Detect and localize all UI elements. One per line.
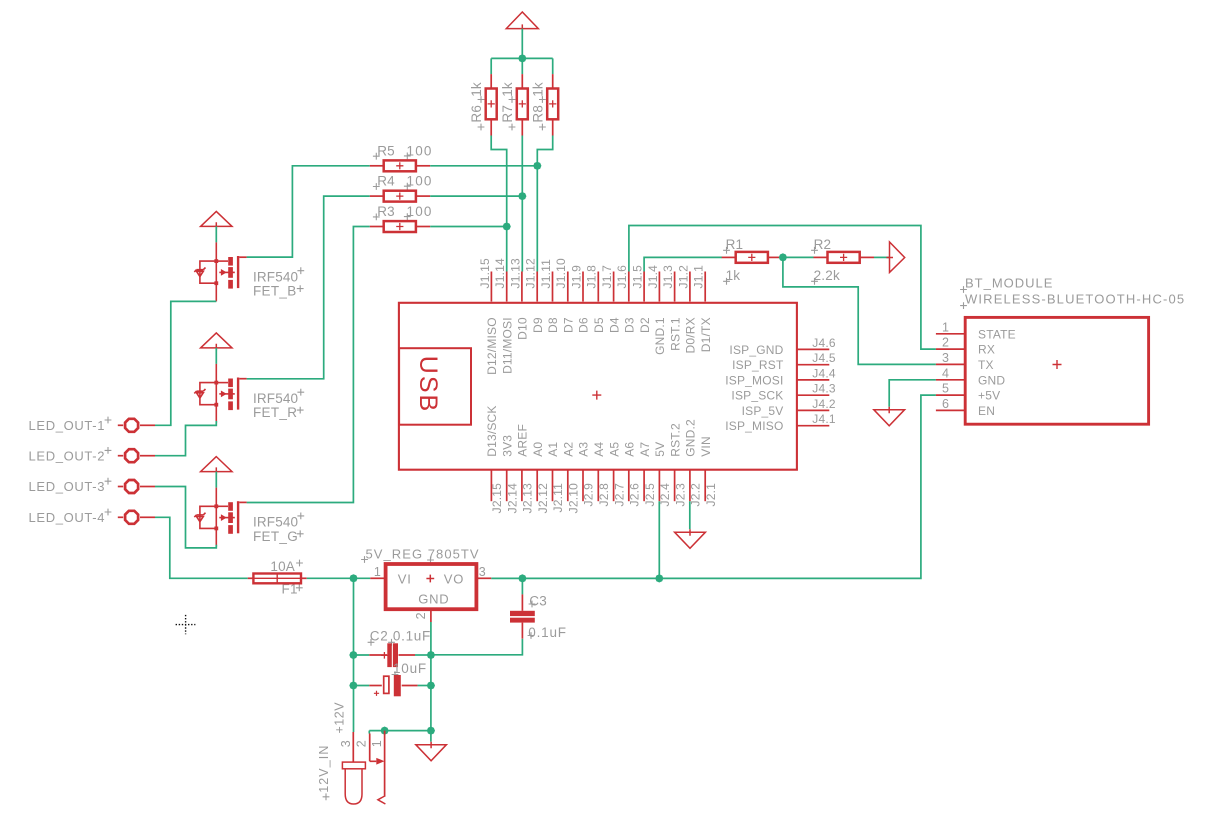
U1 top pin J1.6 stub bbox=[628, 272, 630, 302]
BT_MODULE pin 5 stub bbox=[936, 394, 965, 396]
svg-text:J2.11: J2.11 bbox=[551, 483, 565, 513]
U1 top pin J1.5 stub bbox=[643, 272, 645, 302]
svg-text:D5: D5 bbox=[592, 317, 606, 333]
wire supply to FET_R drain bbox=[215, 348, 217, 364]
U1 bottom pin J2.2 stub bbox=[689, 470, 691, 501]
svg-text:2: 2 bbox=[355, 739, 369, 747]
svg-text:3: 3 bbox=[942, 351, 949, 365]
transistor FET_B (IRF540 N-MOSFET) bbox=[194, 242, 235, 301]
12V_IN pin 3 line bbox=[352, 732, 354, 762]
svg-text:J4.3: J4.3 bbox=[812, 382, 836, 396]
connector pad LED_OUT-3 bbox=[125, 480, 138, 493]
wire R1-R2 junction to BT TX (net TX) bbox=[783, 257, 936, 364]
U1 top pin J1.10 stub bbox=[567, 272, 569, 302]
junction C2 right / GND column bbox=[427, 651, 435, 659]
connector pad LED_OUT-1 bbox=[125, 419, 138, 432]
resistor R6 bottom pin stub bbox=[490, 119, 492, 135]
resistor R4 body bbox=[384, 191, 416, 202]
USB box inside U1 bbox=[399, 348, 471, 425]
svg-text:R4: R4 bbox=[377, 174, 395, 189]
pad LED_OUT-2 pin stub bbox=[140, 455, 155, 457]
U1 top pin J1.12 stub bbox=[536, 272, 538, 302]
wire supply to FET_G drain bbox=[215, 472, 217, 488]
svg-text:10A: 10A bbox=[270, 559, 295, 574]
ground symbol below U1 bbox=[675, 529, 706, 548]
svg-text:2.2k: 2.2k bbox=[814, 268, 840, 283]
svg-text:3: 3 bbox=[339, 739, 353, 747]
capacitor C3 top pin bbox=[521, 594, 523, 610]
svg-text:FET_R: FET_R bbox=[253, 405, 297, 420]
resistor R7 bottom pin stub bbox=[521, 119, 523, 135]
junction bottom row at GND stub bbox=[427, 727, 435, 735]
svg-text:1: 1 bbox=[370, 739, 384, 747]
wire R3 left to FET_G gate bbox=[247, 227, 370, 503]
svg-text:AREF: AREF bbox=[516, 424, 530, 457]
resistor R5 left pin stub bbox=[370, 165, 384, 167]
wire R2 to arrow bbox=[874, 256, 890, 258]
12V_IN sleeve contact chevron bbox=[378, 796, 386, 804]
capacitor C2 plates bbox=[387, 643, 392, 667]
svg-text:J2.8: J2.8 bbox=[597, 483, 611, 507]
svg-text:J1.9: J1.9 bbox=[569, 265, 583, 289]
svg-text:USB: USB bbox=[414, 356, 442, 413]
resistor R4 origin cross bbox=[396, 193, 403, 200]
svg-text:LED_OUT-2: LED_OUT-2 bbox=[29, 448, 106, 463]
svg-text:J1.13: J1.13 bbox=[508, 258, 522, 288]
supply +12V symbol above FET_G bbox=[201, 457, 232, 475]
resistor R8 bottom pin stub bbox=[552, 119, 554, 135]
svg-text:D7: D7 bbox=[561, 317, 575, 333]
resistor R7 top pin stub bbox=[521, 74, 523, 88]
resistor R8 top pin stub bbox=[552, 74, 554, 88]
svg-text:J1.14: J1.14 bbox=[493, 258, 507, 288]
wire 10uF left bbox=[353, 685, 369, 687]
svg-text:J2.13: J2.13 bbox=[521, 483, 535, 513]
wire FET_R source to LED_OUT-2 bbox=[155, 421, 216, 456]
U1 top pin J1.9 stub bbox=[582, 272, 584, 302]
U2 pin 1 stub bbox=[370, 577, 386, 579]
U1 top pin J1.2 stub bbox=[689, 272, 691, 302]
svg-text:ISP_5V: ISP_5V bbox=[742, 404, 784, 418]
fuse F1 right pin stub bbox=[301, 577, 307, 579]
pad LED_OUT-4 pin stub bbox=[140, 516, 155, 518]
svg-text:J1.6: J1.6 bbox=[615, 265, 629, 289]
U1 bottom pin J2.7 stub bbox=[613, 470, 615, 501]
svg-text:VO: VO bbox=[444, 571, 464, 586]
U2 origin cross bbox=[426, 575, 434, 583]
resistor R3 body bbox=[384, 221, 416, 232]
module BT_MODULE body (red rectangle) bbox=[965, 317, 1148, 424]
svg-text:5: 5 bbox=[942, 382, 949, 396]
junction 5V rail at C3 bbox=[518, 574, 526, 582]
svg-text:A6: A6 bbox=[623, 442, 637, 457]
BT_MODULE pin 2 stub bbox=[936, 348, 965, 350]
fuse F1 left pin stub bbox=[248, 577, 254, 579]
U1 top pin J1.8 stub bbox=[597, 272, 599, 302]
wire GND stub to ground symbol bbox=[430, 731, 432, 742]
svg-text:IRF540: IRF540 bbox=[253, 515, 298, 530]
resistor R8 body bbox=[547, 89, 558, 120]
supply +12V symbol above FET_R bbox=[201, 333, 232, 351]
svg-text:LED_OUT-3: LED_OUT-3 bbox=[29, 479, 106, 494]
svg-text:FET_G: FET_G bbox=[253, 529, 298, 544]
svg-text:4: 4 bbox=[942, 366, 949, 380]
pad LED_OUT-3 pin stub bbox=[140, 486, 155, 488]
svg-text:VI: VI bbox=[398, 571, 412, 586]
junction R5 / R8 column bbox=[533, 162, 541, 170]
wire R5 right to junction bbox=[430, 165, 537, 167]
U1 top pin J1.14 stub bbox=[506, 272, 508, 302]
wire GND column from U2 pin2 bbox=[430, 622, 432, 731]
svg-text:J1.15: J1.15 bbox=[478, 258, 492, 288]
svg-text:RST.2: RST.2 bbox=[668, 423, 682, 457]
U1 bottom pin J2.14 stub bbox=[506, 470, 508, 501]
svg-text:D1/TX: D1/TX bbox=[699, 317, 713, 352]
svg-text:IRF540: IRF540 bbox=[253, 269, 298, 284]
wire bus to R7 top bbox=[521, 58, 523, 74]
svg-text:R1: R1 bbox=[726, 237, 744, 252]
U1 bottom pin J2.6 stub bbox=[628, 470, 630, 501]
svg-text:A7: A7 bbox=[638, 442, 652, 457]
wire J2.2 GND down bbox=[689, 501, 691, 529]
svg-text:J4.4: J4.4 bbox=[812, 366, 836, 380]
capacitor C1 left pin bbox=[369, 685, 382, 687]
BT_MODULE pin 1 stub bbox=[936, 333, 965, 335]
svg-text:J1.7: J1.7 bbox=[600, 265, 614, 289]
resistor R5 body bbox=[384, 160, 416, 171]
junction R3 / R6 column bbox=[503, 222, 511, 230]
svg-text:ISP_GND: ISP_GND bbox=[729, 343, 783, 357]
supply +12V symbol (top) bbox=[506, 12, 538, 31]
svg-text:1k: 1k bbox=[500, 82, 515, 97]
svg-text:FET_B: FET_B bbox=[253, 284, 297, 299]
svg-text:J2.7: J2.7 bbox=[612, 483, 626, 507]
resistor R1 origin cross bbox=[748, 254, 755, 261]
resistor R2 left pin stub bbox=[814, 256, 828, 258]
U1 bottom pin J2.1 stub bbox=[704, 470, 706, 501]
U1 right pin J4.1 stub bbox=[797, 425, 830, 427]
svg-text:BT_MODULE: BT_MODULE bbox=[965, 275, 1053, 290]
svg-text:EN: EN bbox=[978, 404, 995, 418]
svg-text:J2.2: J2.2 bbox=[689, 483, 703, 507]
supply arrow symbol right of R2 bbox=[886, 242, 904, 272]
resistor R5 origin cross bbox=[396, 162, 403, 169]
svg-text:D9: D9 bbox=[531, 317, 545, 333]
BT_MODULE pin 6 stub bbox=[936, 409, 965, 411]
pad LED_OUT-3 left tick bbox=[118, 486, 123, 488]
pad LED_OUT-4 left tick bbox=[118, 516, 123, 518]
svg-text:D0/RX: D0/RX bbox=[684, 317, 698, 353]
ground symbol below BT wires bbox=[874, 407, 905, 426]
capacitor C2 right pin bbox=[399, 654, 416, 656]
svg-text:ISP_MOSI: ISP_MOSI bbox=[725, 373, 783, 387]
svg-text:1k: 1k bbox=[726, 268, 741, 283]
svg-text:R7: R7 bbox=[500, 105, 515, 123]
U1 bottom pin J2.15 stub bbox=[490, 470, 492, 501]
fuse F1 body bbox=[253, 574, 301, 584]
svg-text:D4: D4 bbox=[607, 317, 621, 333]
wire 5V rail to BT +5V bbox=[491, 395, 936, 578]
svg-text:J1.5: J1.5 bbox=[631, 265, 645, 289]
svg-text:A3: A3 bbox=[577, 442, 591, 457]
BT_MODULE origin cross bbox=[1053, 360, 1062, 369]
resistor R2 body bbox=[828, 252, 860, 263]
svg-text:R2: R2 bbox=[814, 237, 832, 252]
capacitor C3 plates bbox=[510, 611, 535, 616]
svg-text:A4: A4 bbox=[592, 442, 606, 457]
svg-text:5V: 5V bbox=[653, 442, 667, 457]
svg-text:J2.10: J2.10 bbox=[566, 483, 580, 513]
junction C2 left bbox=[349, 651, 357, 659]
svg-text:3: 3 bbox=[479, 565, 487, 579]
resistor R6 body bbox=[486, 89, 497, 120]
svg-text:D2: D2 bbox=[638, 317, 652, 333]
wire LED_OUT-4 to fuse F1 bbox=[155, 517, 248, 578]
junction 10uF right / GND column bbox=[427, 681, 435, 689]
svg-text:TX: TX bbox=[978, 358, 994, 372]
wire J1.5 to R1 bbox=[644, 257, 722, 271]
wire R4 left to FET_R gate bbox=[247, 196, 370, 379]
wire R4 right to junction bbox=[430, 195, 522, 197]
junction R4 / R7 column bbox=[518, 192, 526, 200]
wire R3 right to junction bbox=[430, 226, 507, 228]
svg-text:LED_OUT-4: LED_OUT-4 bbox=[29, 510, 106, 525]
U1 bottom pin J2.12 stub bbox=[536, 470, 538, 501]
junction 10uF cap left bbox=[349, 681, 357, 689]
svg-text:12V_IN: 12V_IN bbox=[317, 745, 331, 793]
connector pad LED_OUT-4 bbox=[125, 511, 138, 524]
wire J1.6 to BT RX (net RX) bbox=[629, 226, 936, 350]
U1 bottom pin J2.4 stub bbox=[658, 470, 660, 501]
wire supply to FET_B drain bbox=[215, 226, 217, 242]
U1 origin cross bbox=[592, 391, 601, 400]
svg-text:J1.8: J1.8 bbox=[585, 265, 599, 289]
pad LED_OUT-1 left tick bbox=[118, 424, 123, 426]
svg-text:J1.4: J1.4 bbox=[646, 265, 660, 289]
svg-text:J1.10: J1.10 bbox=[554, 258, 568, 288]
junction bottom row at 12V_IN pin1 bbox=[381, 727, 389, 735]
wire R6 bottom to J1.14 column bbox=[491, 136, 507, 272]
transistor FET_R gate pin stub bbox=[239, 378, 246, 380]
U1 top pin J1.15 stub bbox=[490, 272, 492, 302]
connector pad LED_OUT-2 bbox=[125, 449, 138, 462]
U1 bottom pin J2.8 stub bbox=[597, 470, 599, 501]
capacitor C1 right pin bbox=[402, 685, 418, 687]
junction R1-R2 / BT TX bbox=[779, 253, 787, 261]
pad LED_OUT-2 left tick bbox=[118, 455, 123, 457]
svg-text:D8: D8 bbox=[546, 317, 560, 333]
op-amp U1 main MCU module body (red rectangle) bbox=[399, 303, 797, 470]
svg-text:STATE: STATE bbox=[978, 327, 1016, 341]
resistor R8 origin cross bbox=[549, 100, 556, 107]
U1 top pin J1.13 stub bbox=[521, 272, 523, 302]
wire bottom GND row bbox=[369, 730, 431, 732]
resistor R1 right pin stub bbox=[768, 256, 782, 258]
U1 bottom pin J2.10 stub bbox=[567, 470, 569, 501]
capacitor C2 origin cross bbox=[381, 652, 388, 659]
wire FET_G source to LED_OUT-3 bbox=[155, 487, 216, 548]
svg-text:1: 1 bbox=[942, 320, 949, 334]
svg-text:R5: R5 bbox=[377, 143, 395, 158]
svg-text:+5V: +5V bbox=[978, 389, 1000, 403]
resistor R3 left pin stub bbox=[370, 226, 384, 228]
wire C3 bottom to GND net bbox=[431, 639, 523, 655]
svg-text:D13/SCK: D13/SCK bbox=[485, 405, 499, 456]
U1 top pin J1.7 stub bbox=[613, 272, 615, 302]
svg-text:J1.12: J1.12 bbox=[524, 258, 538, 288]
resistor R3 right pin stub bbox=[416, 226, 430, 228]
regulator U2 7805TV body bbox=[386, 564, 477, 609]
resistor R2 right pin stub bbox=[860, 256, 874, 258]
svg-text:J1.3: J1.3 bbox=[661, 265, 675, 289]
svg-text:1: 1 bbox=[374, 565, 382, 579]
svg-text:J2.1: J2.1 bbox=[704, 483, 718, 507]
U1 right pin J4.2 stub bbox=[797, 409, 830, 411]
svg-text:J2.14: J2.14 bbox=[505, 483, 519, 513]
wire F1 to 7805 VI bbox=[307, 577, 371, 579]
svg-text:10uF: 10uF bbox=[393, 661, 427, 676]
resistor R6 origin cross bbox=[488, 100, 495, 107]
transistor FET_G (IRF540 N-MOSFET) bbox=[194, 488, 235, 547]
12V_IN jack body top bar bbox=[342, 762, 365, 769]
svg-text:ISP_MISO: ISP_MISO bbox=[725, 419, 783, 433]
ground symbol bottom bbox=[416, 742, 447, 761]
supply +12V symbol above FET_B bbox=[201, 211, 232, 229]
wire R7 bottom to J1.13 column bbox=[521, 136, 523, 272]
svg-text:J4.2: J4.2 bbox=[812, 397, 836, 411]
svg-text:VIN: VIN bbox=[699, 436, 713, 457]
U1 top pin J1.3 stub bbox=[674, 272, 676, 302]
svg-text:A5: A5 bbox=[607, 442, 621, 457]
svg-text:0.1uF: 0.1uF bbox=[528, 625, 567, 640]
resistor R4 left pin stub bbox=[370, 195, 384, 197]
U1 bottom pin J2.5 stub bbox=[643, 470, 645, 501]
U1 right pin J4.3 stub bbox=[797, 394, 830, 396]
svg-text:J2.6: J2.6 bbox=[628, 483, 642, 507]
resistor R1 left pin stub bbox=[722, 256, 736, 258]
wire BT GND to ground bbox=[889, 380, 936, 407]
wire C3 top bbox=[521, 578, 523, 594]
svg-text:D3: D3 bbox=[623, 317, 637, 333]
svg-text:D10: D10 bbox=[516, 317, 530, 340]
svg-text:WIRELESS-BLUETOOTH-HC-05: WIRELESS-BLUETOOTH-HC-05 bbox=[965, 291, 1185, 306]
12V_IN pin 1 line bbox=[384, 731, 386, 796]
svg-text:J2.5: J2.5 bbox=[643, 483, 657, 507]
wire R1 to R2 bbox=[781, 256, 813, 258]
junction top bus bbox=[518, 54, 526, 62]
12V_IN jack barrel bbox=[345, 769, 362, 804]
wire R5 left to FET_B gate bbox=[247, 166, 370, 257]
svg-text:J1.1: J1.1 bbox=[692, 265, 706, 289]
svg-text:J2.9: J2.9 bbox=[582, 483, 596, 507]
svg-text:2: 2 bbox=[942, 336, 949, 350]
svg-text:A0: A0 bbox=[531, 442, 545, 457]
resistor R7 body bbox=[517, 89, 528, 120]
wire bus to R6 top bbox=[490, 58, 492, 74]
12V_IN pin 1 arrow contact bbox=[376, 758, 384, 765]
svg-text:LED_OUT-1: LED_OUT-1 bbox=[29, 418, 106, 433]
svg-text:2: 2 bbox=[414, 611, 428, 619]
svg-text:C2 0.1uF: C2 0.1uF bbox=[370, 628, 431, 643]
svg-text:J4.5: J4.5 bbox=[812, 351, 836, 365]
svg-text:IRF540: IRF540 bbox=[253, 391, 298, 406]
svg-text:J2.4: J2.4 bbox=[658, 483, 672, 507]
transistor FET_R (IRF540 N-MOSFET) bbox=[194, 364, 235, 423]
U1 right pin J4.5 stub bbox=[797, 364, 830, 366]
svg-text:J1.11: J1.11 bbox=[539, 259, 553, 289]
wire C2 left bbox=[353, 654, 369, 656]
BT_MODULE pin 4 stub bbox=[936, 379, 965, 381]
svg-text:J2.12: J2.12 bbox=[536, 483, 550, 513]
wire VCC triangle to junction bbox=[521, 29, 523, 59]
svg-text:GND: GND bbox=[978, 373, 1005, 387]
U1 top pin J1.4 stub bbox=[658, 272, 660, 302]
capacitor C1 (10uF polarized) plates bbox=[384, 676, 389, 693]
wire top bus horizontal bbox=[491, 57, 553, 59]
U2 pin 2 stub bbox=[430, 609, 432, 622]
svg-text:1k: 1k bbox=[469, 82, 484, 97]
U1 right pin J4.6 stub bbox=[797, 348, 830, 350]
wire C2 right bbox=[415, 654, 431, 656]
wire 12V rail down to 12V_IN bbox=[353, 578, 355, 732]
junction 12V rail at F1/7805 bbox=[349, 574, 357, 582]
capacitor C1 polarity plus bbox=[374, 691, 379, 696]
svg-text:J4.6: J4.6 bbox=[812, 336, 836, 350]
resistor R4 right pin stub bbox=[416, 195, 430, 197]
svg-text:J1.2: J1.2 bbox=[676, 265, 690, 289]
svg-text:R8: R8 bbox=[530, 105, 545, 123]
svg-text:3V3: 3V3 bbox=[500, 435, 514, 457]
svg-text:J4.1: J4.1 bbox=[812, 412, 836, 426]
svg-text:D11/MOSI: D11/MOSI bbox=[500, 317, 514, 374]
U1 bottom pin J2.11 stub bbox=[552, 470, 554, 501]
12V_IN pin 2 line bbox=[370, 734, 377, 762]
U1 bottom pin J2.9 stub bbox=[582, 470, 584, 501]
U1 top pin J1.11 stub bbox=[552, 272, 554, 302]
svg-text:J2.3: J2.3 bbox=[673, 483, 687, 507]
wire bottom row to 12V_IN pin2 bbox=[368, 731, 370, 734]
svg-text:A1: A1 bbox=[546, 442, 560, 457]
wire 10uF right bbox=[418, 685, 431, 687]
wire J2.4 5V to rail bbox=[658, 501, 660, 578]
resistor R7 origin cross bbox=[519, 100, 526, 107]
resistor R1 body bbox=[736, 252, 768, 263]
U1 bottom pin J2.3 stub bbox=[674, 470, 676, 501]
svg-text:R6: R6 bbox=[469, 105, 484, 123]
pad LED_OUT-1 pin stub bbox=[140, 424, 155, 426]
svg-text:+12V: +12V bbox=[333, 702, 347, 734]
svg-text:ISP_RST: ISP_RST bbox=[732, 358, 784, 372]
capacitor C3 bottom pin bbox=[521, 623, 523, 639]
svg-text:RX: RX bbox=[978, 343, 995, 357]
svg-text:1k: 1k bbox=[530, 82, 545, 97]
wire R8 bottom to J1.12 column bbox=[537, 136, 552, 272]
svg-text:5V_REG 7805TV: 5V_REG 7805TV bbox=[366, 546, 480, 561]
svg-text:A2: A2 bbox=[561, 442, 575, 457]
svg-text:D12/MISO: D12/MISO bbox=[485, 317, 499, 375]
U2 pin 3 stub bbox=[476, 577, 491, 579]
resistor R2 origin cross bbox=[840, 254, 847, 261]
crosshair marker bbox=[176, 615, 196, 634]
svg-text:J2.15: J2.15 bbox=[490, 483, 504, 513]
U1 bottom pin J2.13 stub bbox=[521, 470, 523, 501]
svg-text:D6: D6 bbox=[577, 317, 591, 333]
transistor FET_G gate pin stub bbox=[239, 501, 246, 503]
svg-text:6: 6 bbox=[942, 397, 949, 411]
U1 top pin J1.1 stub bbox=[704, 272, 706, 302]
BT_MODULE pin 3 stub bbox=[936, 363, 965, 365]
wire bus to R8 top bbox=[552, 58, 554, 74]
